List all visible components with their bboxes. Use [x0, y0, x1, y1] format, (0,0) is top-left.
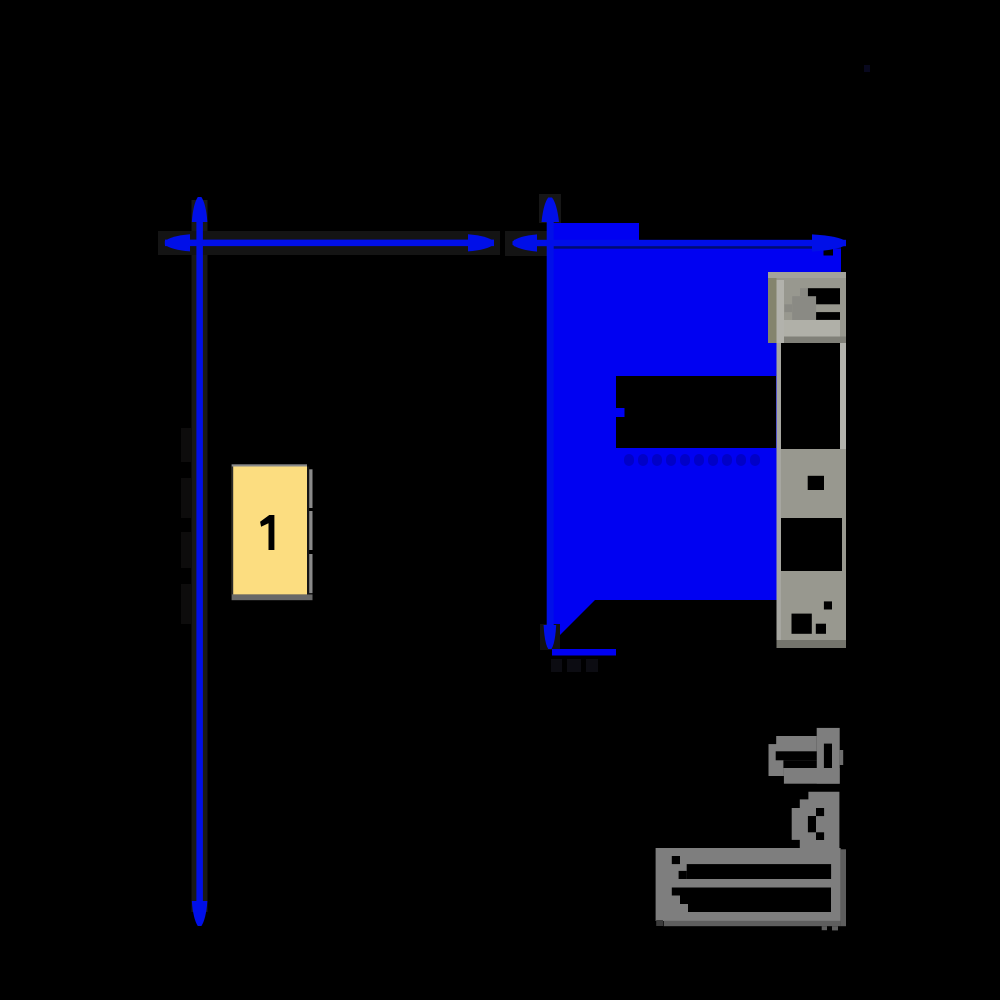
furniture B slot 1 — [687, 864, 831, 879]
furniture B black C mark top — [816, 808, 824, 816]
faint navy dot top right — [864, 65, 870, 72]
halo of dimension line D1 — [158, 231, 500, 255]
furniture A right tab — [840, 750, 844, 765]
wall panel lower left bar — [777, 343, 782, 648]
dimension arrow D2 right head — [812, 234, 846, 251]
blue tab in notch — [616, 408, 625, 417]
faint value smudge below V2 tail — [551, 659, 562, 672]
wall panel icon black slot upper — [808, 288, 840, 304]
furniture B right shadow — [841, 849, 846, 926]
furniture A black vertical slot — [824, 744, 832, 768]
room label right jamb upper — [309, 469, 312, 508]
halo of vertical dimension line V2 top — [539, 194, 561, 223]
navy dimension line over room region — [552, 246, 841, 249]
wall panel bottom black square 2 — [816, 624, 826, 634]
furniture B foot 1 — [822, 926, 827, 930]
wall panel shadow band — [784, 337, 846, 344]
halo of dimension line D2 left — [505, 231, 548, 256]
furniture A left column — [769, 744, 784, 776]
dimension arrow D2 left head — [513, 234, 538, 251]
wall panel icon section body — [768, 272, 846, 343]
wall panel icon black slot lower — [816, 312, 840, 320]
furniture A right tall block — [817, 728, 840, 784]
furniture B bottom left dark square — [656, 920, 663, 926]
wall panel small black rect mid — [808, 476, 824, 490]
furniture B body — [656, 848, 841, 921]
furniture B bottom shadow — [664, 921, 841, 926]
furniture A mid block — [776, 736, 817, 768]
furniture B column — [792, 792, 840, 848]
wall panel window 1 — [781, 343, 840, 449]
blue wall stub at bottom — [552, 649, 616, 656]
room label yellow box — [232, 467, 307, 595]
small black notch at top right of room region — [824, 248, 834, 256]
dimension arrow V1 shaft (vertical left) — [196, 210, 203, 913]
furniture B slot 2 — [672, 888, 831, 913]
wall panel icon hand top tab — [800, 288, 808, 296]
room label text 1 — [260, 515, 274, 550]
wall panel light jamb — [777, 280, 785, 343]
halo of vertical dimension line V1 — [192, 200, 208, 912]
dimension arrow V2 top head — [542, 198, 560, 223]
wall panel window 1 right bar — [840, 343, 846, 449]
wall panel window 2 — [781, 518, 842, 571]
room label bottom bar — [232, 594, 313, 600]
furniture B black C mark bottom — [816, 832, 824, 840]
faint value smudge left of V1 — [181, 428, 191, 462]
blue room region (selected wall area) — [548, 223, 841, 645]
wall panel bottom black square 1 — [792, 614, 812, 634]
dimension arrow D2 shaft (horizontal right) — [514, 240, 846, 246]
dimension arrow V1 bottom head — [192, 901, 208, 926]
wall panel lower body — [777, 343, 847, 648]
black notch in room region — [616, 376, 776, 448]
dimension arrow V2 bottom head — [544, 625, 557, 649]
furniture B black C mark vertical — [808, 816, 816, 832]
wall panel top light band — [768, 272, 846, 278]
dimension arrow D1 shaft (horizontal left) — [165, 240, 494, 247]
wall panel bottom shadow — [777, 640, 847, 648]
furniture A black slot row 1 — [776, 751, 817, 760]
furniture B foot 2 — [832, 926, 838, 930]
halo of vertical dimension line V2 bottom — [540, 624, 560, 650]
room label top line — [232, 464, 307, 466]
wall panel olive strip — [768, 272, 777, 343]
furniture B slot 1 step — [679, 871, 687, 879]
wall panel bottom black square 3 — [824, 601, 832, 609]
wall panel light band below icon — [784, 320, 840, 337]
furniture A black slot row 2 — [783, 760, 816, 768]
room label right jamb lower — [309, 554, 312, 593]
wall panel icon hand main — [792, 296, 816, 320]
room label right dark line — [307, 467, 309, 595]
dimension arrow D1 left head — [165, 234, 190, 251]
dark dot row on blue region — [624, 454, 760, 466]
wall panel icon hand left tab — [784, 304, 792, 312]
dimension arrow V1 top head — [192, 197, 208, 222]
room label right jamb middle — [309, 511, 312, 550]
furniture B black dot — [672, 856, 680, 864]
dimension arrow V2 shaft (vertical mid) — [547, 210, 554, 635]
room label left edge line — [232, 467, 234, 595]
dimension arrow D1 right head — [468, 234, 494, 251]
furniture A bottom band — [784, 768, 840, 784]
